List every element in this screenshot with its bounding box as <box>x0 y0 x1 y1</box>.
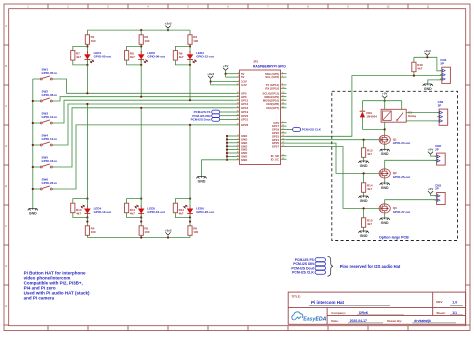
svg-text:JP1: JP1 <box>253 60 259 64</box>
svg-text:4k7: 4k7 <box>367 187 372 191</box>
pin ID_SC right <box>271 157 287 161</box>
svg-text:PCM-I2S CLK: PCM-I2S CLK <box>302 128 322 132</box>
ground R15 <box>359 231 369 238</box>
wire net GPIO-05-in <box>54 79 234 93</box>
net port group pins reserved for I2S <box>291 256 400 276</box>
pin GP13 left <box>234 102 249 106</box>
svg-text:DRvK: DRvK <box>359 311 369 315</box>
wire <box>73 213 88 218</box>
wire bottom rail <box>87 237 190 239</box>
svg-text:GPIO-25-out: GPIO-25-out <box>393 175 411 179</box>
wire <box>86 235 88 237</box>
resistor R11 <box>125 203 136 215</box>
pin SCL (GP3) right <box>265 75 286 79</box>
svg-text:Date:: Date: <box>331 319 339 323</box>
svg-text:+3v3: +3v3 <box>207 72 214 76</box>
svg-text:A: A <box>5 24 7 28</box>
LED LED3 <box>187 51 214 63</box>
svg-text:GND: GND <box>198 179 206 183</box>
pin GND left <box>234 144 248 148</box>
wire drain rail <box>362 128 384 130</box>
ground Q2 <box>380 183 390 190</box>
wire CN3 to Q3 drain <box>385 200 437 204</box>
svg-text:GND: GND <box>424 87 432 91</box>
power +3v3 CN4 <box>424 49 431 58</box>
power +3v3 bottom rail <box>165 228 172 238</box>
svg-text:REV: REV <box>436 300 442 304</box>
resistor R15 <box>362 218 373 228</box>
svg-text:GPIO-13-out: GPIO-13-out <box>94 210 112 214</box>
pin GP21 left <box>234 118 249 122</box>
svg-text:4k7: 4k7 <box>130 212 135 216</box>
ground Q3 <box>380 218 390 225</box>
wire <box>189 199 191 207</box>
relay K1 <box>381 109 416 122</box>
svg-text:GPIO-13-in: GPIO-13-in <box>42 137 58 141</box>
resistor R5 <box>139 226 150 236</box>
svg-text:1/1: 1/1 <box>452 311 457 315</box>
junction <box>32 100 34 102</box>
wire <box>189 235 191 237</box>
resistor R14 <box>362 183 373 193</box>
svg-text:Company:: Company: <box>331 311 346 315</box>
svg-text:D: D <box>5 144 7 148</box>
wire LED1 feeder <box>86 65 88 93</box>
wire net GPIO-12-in <box>54 100 234 123</box>
transistor Q1 <box>379 135 410 145</box>
switch SW5 <box>33 156 57 168</box>
wire R2 to rail <box>140 30 142 35</box>
svg-text:PCM-I2S Dout: PCM-I2S Dout <box>191 118 211 122</box>
svg-text:TITLE:: TITLE: <box>292 294 301 298</box>
svg-text:+5V: +5V <box>382 92 389 96</box>
wire <box>127 60 142 65</box>
LED LED4 <box>81 205 111 217</box>
wire <box>140 44 142 52</box>
svg-text:+5V: +5V <box>428 187 435 191</box>
resistor R3 <box>188 35 199 45</box>
LED LED6 <box>184 205 214 217</box>
svg-text:B: B <box>5 64 7 68</box>
svg-text:H: H <box>5 304 7 308</box>
resistor R1 <box>85 35 96 45</box>
svg-text:100: 100 <box>144 39 149 43</box>
svg-text:E: E <box>5 184 7 188</box>
wire net GP25 to Q2 gate <box>287 143 380 173</box>
connector CN4 <box>440 58 451 83</box>
svg-text:GPIO-12-in: GPIO-12-in <box>42 115 58 119</box>
pin MOSI(GP10) right <box>263 98 287 102</box>
svg-text:EasyEDA: EasyEDA <box>303 316 326 322</box>
svg-text:4k7: 4k7 <box>367 152 372 156</box>
wire CN4 pin3 to ground <box>428 80 442 84</box>
switch SW1 <box>33 68 57 80</box>
resistor R9 <box>173 51 184 61</box>
svg-text:GND: GND <box>29 211 37 215</box>
svg-text:100: 100 <box>193 230 198 234</box>
pin TX (GP14) right <box>266 83 287 87</box>
power +5V CN2 <box>428 148 437 157</box>
wire Q2 source to ground <box>384 178 386 183</box>
EasyEDA logo <box>292 312 327 322</box>
wire switch left bus <box>32 79 34 209</box>
svg-text:G: G <box>5 264 7 268</box>
svg-text:and Pi camera: and Pi camera <box>24 296 55 301</box>
power +5V relay <box>382 92 389 102</box>
svg-text:+5V: +5V <box>223 64 230 68</box>
svg-text:100: 100 <box>91 230 96 234</box>
transistor Q2 <box>379 169 410 179</box>
switch SW2 <box>33 90 57 102</box>
wire relay coil to drain rail <box>384 122 386 129</box>
wire R1 to rail <box>86 30 88 35</box>
svg-text:2P: 2P <box>435 187 439 191</box>
wire <box>86 44 88 52</box>
pin ID_SD right <box>271 154 287 158</box>
pin GP24 right <box>272 138 287 142</box>
power +5V CN3 <box>428 187 437 196</box>
wire <box>86 59 88 65</box>
wire net GP27 to Q3 gate <box>287 147 380 209</box>
wire net GPIO-16-in <box>54 108 234 167</box>
svg-text:100: 100 <box>144 230 149 234</box>
svg-text:3.3V: 3.3V <box>241 83 247 87</box>
wire Q3 source to ground <box>384 213 386 218</box>
pin GP18 right <box>272 128 287 132</box>
svg-text:GP26: GP26 <box>241 123 249 127</box>
svg-text:Sheet:: Sheet: <box>436 311 445 315</box>
svg-text:CE1(GP7): CE1(GP7) <box>266 106 279 110</box>
pin GND left <box>234 158 248 162</box>
wire <box>175 60 190 65</box>
svg-text:ID_SC: ID_SC <box>271 157 279 161</box>
wire header GND bus <box>202 135 234 177</box>
net port PCM-I2S DIN <box>192 114 233 118</box>
svg-text:4k7: 4k7 <box>130 55 135 59</box>
wire R15 <box>363 207 365 231</box>
svg-text:GPIO-12-out: GPIO-12-out <box>196 55 214 59</box>
IC JP1 RASPBERRYPI GPIO header <box>240 60 287 165</box>
svg-text:+3v3: +3v3 <box>165 228 172 232</box>
wire R3 to rail <box>189 30 191 35</box>
junction <box>32 144 34 146</box>
svg-text:Pins reserved for I2S audio Ha: Pins reserved for I2S audio Hat <box>340 264 401 269</box>
info text block <box>24 270 90 300</box>
svg-text:3P: 3P <box>440 61 444 65</box>
wire <box>189 59 191 65</box>
wire net GP23 to CN4 <box>287 76 442 137</box>
svg-text:2020-04-17: 2020-04-17 <box>350 319 367 323</box>
svg-text:GPIO-24-out: GPIO-24-out <box>393 141 411 145</box>
ground header <box>197 177 207 184</box>
wire diode to drain rail <box>361 108 363 129</box>
wire CN2 to Q2 drain <box>385 160 437 169</box>
junction <box>140 29 142 31</box>
pin 3.3V left <box>234 80 247 84</box>
svg-text:5V: 5V <box>241 75 245 79</box>
wire relay contacts to CN1 <box>406 113 439 121</box>
svg-text:4k7: 4k7 <box>179 55 184 59</box>
wire Q1 source to ground <box>384 144 386 149</box>
pin GP4 right <box>273 121 286 125</box>
wire <box>175 213 190 218</box>
pin 5V left <box>234 72 245 76</box>
svg-text:GPIO-06-in: GPIO-06-in <box>42 93 58 97</box>
connector CN2 <box>435 144 446 165</box>
ground Q1 <box>380 149 390 156</box>
pin MISO(GP9) right <box>264 95 286 99</box>
wire R13 <box>363 139 365 161</box>
svg-text:4k7: 4k7 <box>76 55 81 59</box>
pin SDA (GP2) right <box>265 72 287 76</box>
wire branch to R8 <box>127 46 142 50</box>
svg-text:GPIO-05-out: GPIO-05-out <box>94 55 112 59</box>
wire <box>140 199 142 207</box>
wire R14 <box>363 172 365 196</box>
junction <box>32 122 34 124</box>
wire +5V rail <box>362 101 401 110</box>
connector CN3 <box>435 183 446 204</box>
svg-text:Option large PCB: Option large PCB <box>379 236 409 240</box>
net port PCM-I2S Dout <box>191 118 234 122</box>
pin 3.3V left <box>234 83 247 87</box>
svg-text:GP27: GP27 <box>272 145 280 149</box>
pin GND left <box>234 148 248 152</box>
dashed box Option large PCB <box>332 91 458 240</box>
pin GND left <box>234 141 248 145</box>
svg-text:100: 100 <box>193 39 198 43</box>
junction <box>384 128 386 130</box>
resistor R6 <box>188 226 199 236</box>
resistor R4 <box>85 226 96 236</box>
wire LED feeder LED6 <box>189 125 191 199</box>
svg-text:+5V: +5V <box>428 148 435 152</box>
ground R13 <box>359 161 369 168</box>
wire branch to R7 <box>73 46 88 50</box>
switch SW4 <box>33 134 57 146</box>
svg-text:Pi intercom Hat: Pi intercom Hat <box>311 300 345 305</box>
ground below switch bus <box>28 209 38 216</box>
svg-text:GPIO-26-out: GPIO-26-out <box>196 210 214 214</box>
wire top rail <box>87 29 190 31</box>
svg-text:GPIO-05-in: GPIO-05-in <box>42 71 58 75</box>
svg-text:GPIO-26-in: GPIO-26-in <box>42 181 58 185</box>
svg-text:1.0: 1.0 <box>452 301 457 305</box>
svg-text:4k7: 4k7 <box>179 212 184 216</box>
net port PCM-I2S FS <box>194 110 234 114</box>
svg-text:SCL (GP3): SCL (GP3) <box>265 75 279 79</box>
LED LED1 <box>84 51 111 63</box>
svg-text:GND: GND <box>360 199 368 203</box>
wire <box>140 235 142 237</box>
pin GP26 left <box>234 123 249 127</box>
svg-text:+3v3: +3v3 <box>424 49 431 53</box>
pin GP17 right <box>272 124 287 128</box>
wire R16 to net <box>413 72 415 76</box>
wire Q1 drain <box>384 129 386 135</box>
pin GP20 left <box>234 114 249 118</box>
wire +3v3 to R16 and CN4 <box>414 56 442 71</box>
junction <box>140 236 142 238</box>
ground CN4 <box>423 84 433 91</box>
wire net GPIO-06-in <box>54 97 234 101</box>
wire net GPIO-13-in <box>54 104 234 145</box>
pin CE1(GP7) right <box>266 106 286 110</box>
svg-text:GPIO-16-out: GPIO-16-out <box>147 210 165 214</box>
svg-text:Relay: Relay <box>408 114 416 118</box>
pin GND left <box>234 134 248 138</box>
diode D09 1N4004 <box>360 111 378 119</box>
svg-text:2P: 2P <box>435 147 439 151</box>
power +3v3 top rail <box>165 22 172 32</box>
svg-text:GPIO-27-out: GPIO-27-out <box>393 210 411 214</box>
transistor Q3 <box>379 204 410 214</box>
pin GP25 right <box>272 141 287 145</box>
junction <box>32 188 34 190</box>
title block <box>288 292 465 324</box>
pin GP12 left <box>234 98 249 102</box>
wire <box>73 60 88 65</box>
wire branch to R11 <box>127 199 142 204</box>
wire <box>189 44 191 52</box>
pin GP23 right <box>272 134 287 138</box>
pin GND left <box>234 155 248 159</box>
wire branch to R12 <box>175 199 190 204</box>
svg-text:GND: GND <box>360 164 368 168</box>
switch SW3 <box>33 112 57 124</box>
switch SW6 <box>33 178 57 190</box>
wire branch to R10 <box>73 199 88 204</box>
resistor R2 <box>139 35 150 45</box>
wire net GPIO-26-in <box>54 125 234 189</box>
pin GP19 left <box>234 110 249 114</box>
resistor R13 <box>362 148 373 158</box>
pin RX (GP15) right <box>265 86 286 90</box>
svg-text:100: 100 <box>91 39 96 43</box>
pin GND left <box>234 138 248 142</box>
pin GP6 left <box>234 95 248 99</box>
wire LED feeder LED5 <box>140 108 142 199</box>
power +5V header <box>223 64 234 77</box>
resistor R8 <box>125 51 136 61</box>
svg-text:drvkatwijk: drvkatwijk <box>414 319 431 323</box>
svg-text:+3v3: +3v3 <box>165 22 172 26</box>
net port PCM-I2S CLK <box>287 128 322 132</box>
svg-text:3P: 3P <box>438 103 442 107</box>
pin GP5 left <box>234 91 248 95</box>
svg-text:GP21: GP21 <box>241 118 249 122</box>
wire <box>86 199 88 207</box>
connector CN1 <box>437 100 448 125</box>
pin GND left <box>234 151 248 155</box>
power +3v3 header <box>207 72 233 85</box>
svg-text:4k7: 4k7 <box>367 222 372 226</box>
wire LED feeder LED4 <box>86 104 88 199</box>
svg-text:GPIO-06-out: GPIO-06-out <box>147 55 165 59</box>
ground R14 <box>359 196 369 203</box>
resistor R7 <box>71 51 82 61</box>
wire <box>140 59 142 65</box>
svg-text:Drawn By:: Drawn By: <box>387 319 402 323</box>
pin SCLK(GP11) right <box>263 91 287 95</box>
svg-text:GND: GND <box>381 152 389 156</box>
svg-text:GND: GND <box>360 234 368 238</box>
svg-text:GPIO-16-in: GPIO-16-in <box>42 159 58 163</box>
resistor R10 <box>71 203 82 215</box>
LED LED5 <box>135 205 165 217</box>
svg-text:4k7: 4k7 <box>417 67 422 71</box>
svg-text:1N4004: 1N4004 <box>366 115 377 119</box>
wire <box>127 213 142 218</box>
pin CE0(GP8) right <box>266 102 286 106</box>
LED LED2 <box>138 51 165 63</box>
pin 5V left <box>234 75 245 79</box>
junction <box>32 166 34 168</box>
svg-text:GND: GND <box>381 186 389 190</box>
pin GP22 right <box>272 131 287 135</box>
wire LED2 feeder <box>140 65 142 97</box>
svg-text:4k7: 4k7 <box>76 212 81 216</box>
resistor R12 <box>173 203 184 215</box>
svg-text:PCM-I2S CLK: PCM-I2S CLK <box>292 271 314 275</box>
svg-text:RX (GP15): RX (GP15) <box>265 86 279 90</box>
svg-text:GND: GND <box>241 158 247 162</box>
pin GP27 right <box>272 145 287 149</box>
svg-text:C: C <box>5 104 7 108</box>
svg-text:RASPBERRYPI GPIO: RASPBERRYPI GPIO <box>253 64 286 68</box>
wire net GP24 to Q1 gate <box>287 139 380 141</box>
svg-text:GND: GND <box>381 221 389 225</box>
resistor R16 <box>412 62 423 71</box>
wire branch to R9 <box>175 46 190 50</box>
wire LED3 feeder <box>189 65 191 100</box>
pin GP16 left <box>234 106 249 110</box>
